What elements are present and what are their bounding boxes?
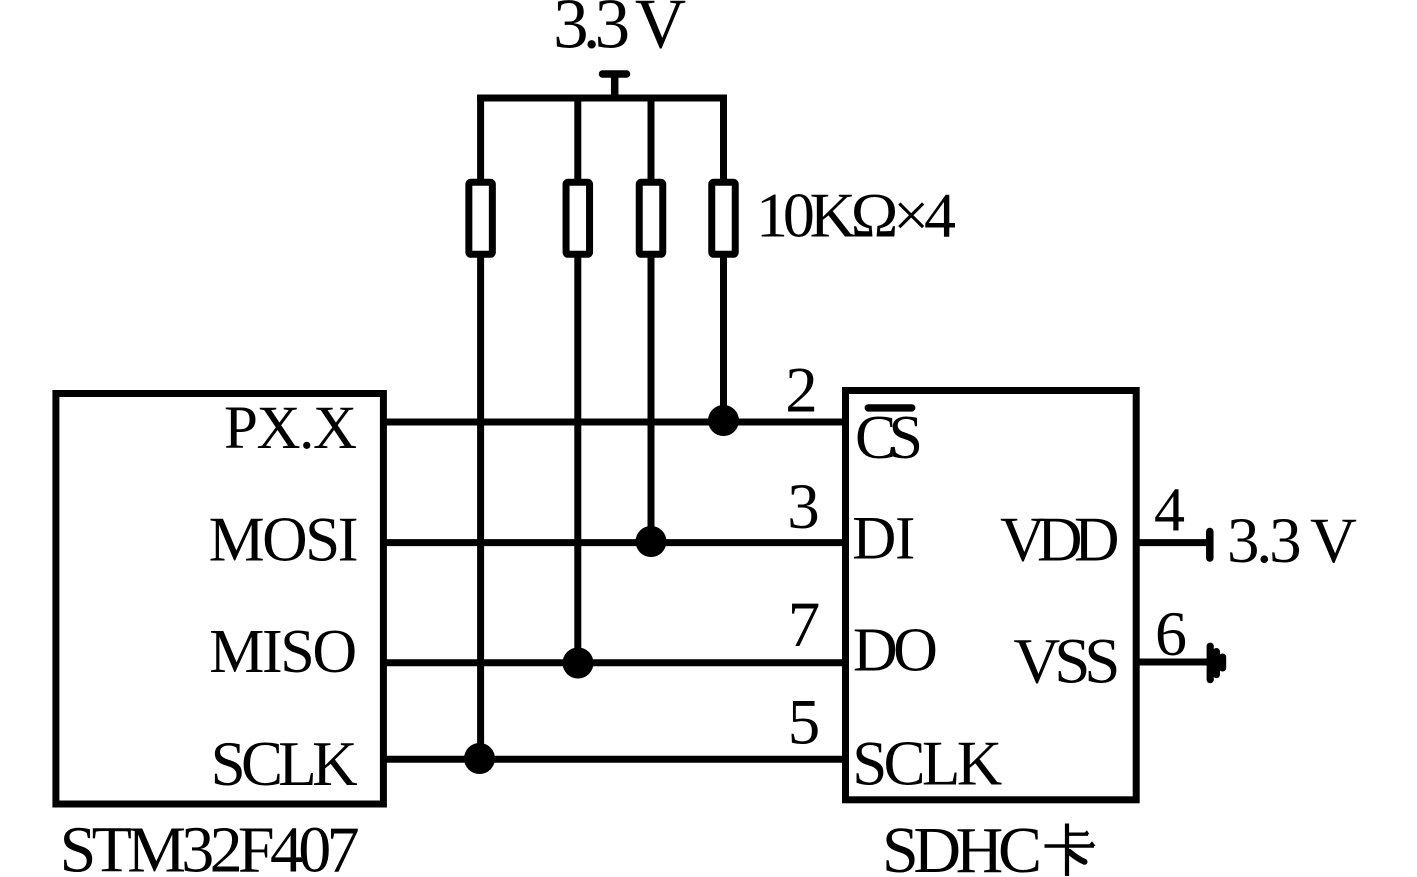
svg-text:DO: DO [853,617,938,685]
wire bus drop to R2 [574,95,581,184]
svg-text:3.3 V: 3.3 V [1227,505,1357,577]
junction dot on DI net [636,526,667,557]
wire R4 lead to CS net [720,252,727,422]
svg-text:SCLK: SCLK [852,729,1002,799]
ground symbol bar 3 [1219,657,1226,668]
svg-text:2: 2 [785,355,818,427]
IC U1 STM32F407 box [56,394,384,805]
svg-text:4: 4 [1154,477,1185,545]
power symbol 3.3V bar [603,70,627,78]
junction dot on SCLK net [464,743,495,774]
svg-text:6: 6 [1155,598,1187,669]
svg-text:MISO: MISO [209,618,357,686]
svg-text:VDD: VDD [1000,505,1120,575]
junction dot on DO net [563,648,594,679]
wire net CS (PX.X to CS pin 2) [383,419,846,426]
svg-text:PX.X: PX.X [224,395,357,462]
resistor R2 [566,182,590,254]
ground symbol bar 1 [1207,646,1214,680]
overline on CS [865,404,916,411]
svg-text:DI: DI [852,505,915,572]
svg-text:SDHC: SDHC [882,814,1042,877]
junction dot on CS net [708,405,739,436]
svg-text:5: 5 [788,687,821,759]
wire VSS pin 6 [1136,659,1207,666]
svg-text:3.3 V: 3.3 V [553,0,686,64]
wire net DO (MISO to DO pin 7) [383,659,846,666]
wire power bus [477,95,727,102]
wire VDD pin 4 [1136,539,1206,546]
svg-text:MOSI: MOSI [209,505,359,575]
svg-text:10KΩ×4: 10KΩ×4 [756,180,956,251]
svg-text:STM32F407: STM32F407 [60,814,360,877]
svg-text:3: 3 [787,471,820,543]
label CJK ka (card) character [1045,824,1096,877]
wire bus drop to R1 [477,95,484,184]
power symbol stem [611,74,619,98]
svg-text:CS: CS [855,404,923,472]
wire bus drop to R4 [720,95,727,184]
svg-text:VSS: VSS [1013,626,1120,698]
wire R2 lead to DO net [574,252,581,663]
wire R1 lead to SCLK net [477,252,484,759]
resistor R1 [469,182,493,254]
svg-text:SCLK: SCLK [211,729,358,799]
wire bus drop to R3 [648,95,655,184]
resistor R3 [639,182,663,254]
IC U2 SDHC card box [846,391,1137,800]
power bar at VDD [1206,532,1214,559]
ground symbol bar 2 [1213,652,1220,675]
svg-text:7: 7 [788,589,821,661]
resistor R4 [712,182,736,254]
wire R3 lead to DI net [648,252,655,543]
wire net SCLK (SCLK to SCLK pin 5) [383,756,846,763]
wire net DI (MOSI to DI pin 3) [383,539,846,546]
